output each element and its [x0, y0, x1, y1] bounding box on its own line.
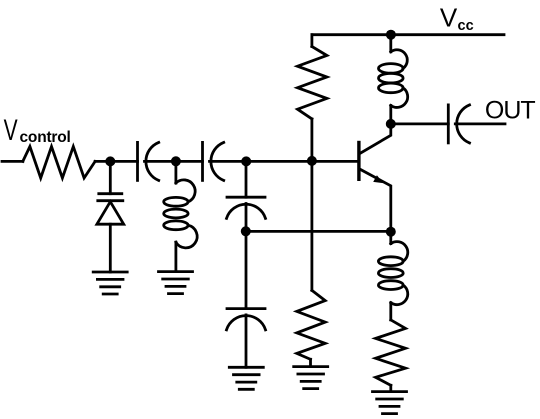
svg-text:V: V: [440, 2, 458, 32]
wire: L1 to ground: [174, 242, 177, 271]
wire: Vcc node E down to L2: [389, 35, 392, 52]
capacitor C1 flat plate: [136, 142, 139, 180]
wire: node G down to C4: [245, 231, 248, 308]
wire: node C down to C3: [245, 161, 248, 197]
svg-text:V: V: [4, 114, 19, 146]
capacitor C4 curved plate: [227, 316, 266, 330]
node D: [307, 156, 317, 166]
varactor D1 diode triangle: [97, 202, 124, 225]
resistor R2 (base bias lower): [297, 290, 325, 359]
transistor Q1 base bar: [357, 143, 360, 180]
wire: C3 to node G: [245, 204, 248, 232]
wire: C2 to transistor base through nodes C and D: [210, 160, 359, 163]
label Vcontrol: [4, 114, 71, 146]
node E (Vcc rail): [386, 30, 396, 40]
wire: node G row to emitter node H: [246, 230, 391, 233]
wire: rail corner down to R1: [310, 35, 313, 47]
node A: [105, 156, 115, 166]
inductor L3 (emitter choke): [378, 242, 407, 305]
svg-text:cc: cc: [458, 18, 474, 34]
wire: C5 to OUT: [455, 123, 505, 126]
label Vcc: [440, 2, 474, 34]
varactor D1 capacitor bar: [99, 192, 122, 195]
node H (emitter): [386, 227, 396, 237]
node G (C3/C4 tap): [241, 226, 251, 236]
capacitor C1 curved plate: [146, 142, 159, 180]
node C: [241, 156, 251, 166]
transistor Q1 emitter lead: [360, 169, 391, 231]
ground G3: [229, 367, 263, 389]
wire: R3 to ground: [389, 385, 392, 391]
wire: emitter node H down to L3: [389, 232, 392, 244]
ground G5: [373, 392, 407, 414]
resistor Rin (series input resistor): [23, 147, 95, 179]
ground G1: [93, 272, 127, 294]
capacitor C2 curved plate: [211, 142, 224, 180]
node B: [171, 156, 181, 166]
capacitor C3 curved plate: [227, 204, 266, 218]
ground G4: [294, 367, 328, 389]
capacitor C5 curved plate: [457, 105, 470, 143]
inductor L1: [164, 180, 197, 248]
wire: Vcontrol input lead: [2, 160, 23, 163]
wire: node F to output cap C5: [391, 123, 449, 126]
Vcc rail: [312, 33, 504, 36]
node F (collector): [386, 119, 396, 129]
wire: varactor to ground: [109, 224, 112, 272]
capacitor C4 flat plate: [227, 307, 265, 310]
capacitor C2 flat plate: [201, 142, 204, 180]
transistor Q1 emitter arrow: [373, 175, 383, 183]
svg-text:control: control: [20, 129, 71, 146]
wire: Rin to C1 plate through node A: [95, 160, 137, 163]
varactor D1 cathode bar: [98, 199, 123, 202]
wire: C4 to ground: [245, 315, 248, 367]
wire: L3 to R3: [389, 303, 392, 320]
capacitor C5 flat plate: [447, 105, 450, 143]
wire: C1 to C2 through node B: [145, 160, 203, 163]
resistor R1 (base bias upper): [298, 47, 327, 119]
wire: R2 to ground: [309, 359, 312, 366]
svg-text:OUT: OUT: [485, 97, 536, 125]
wire: node D down through row crossing to R2: [310, 161, 313, 291]
capacitor C3 flat plate: [227, 196, 265, 199]
inductor L2 (collector choke): [379, 50, 408, 108]
wire: L2 to collector node F: [389, 106, 392, 124]
transistor Q1 collector lead: [360, 124, 391, 153]
wire: node A down to varactor: [109, 161, 112, 193]
resistor R3 (emitter): [376, 320, 406, 385]
ground G2: [159, 272, 193, 294]
wire: R1 to node D: [310, 119, 313, 161]
wire: node B down to inductor L1: [174, 161, 177, 183]
